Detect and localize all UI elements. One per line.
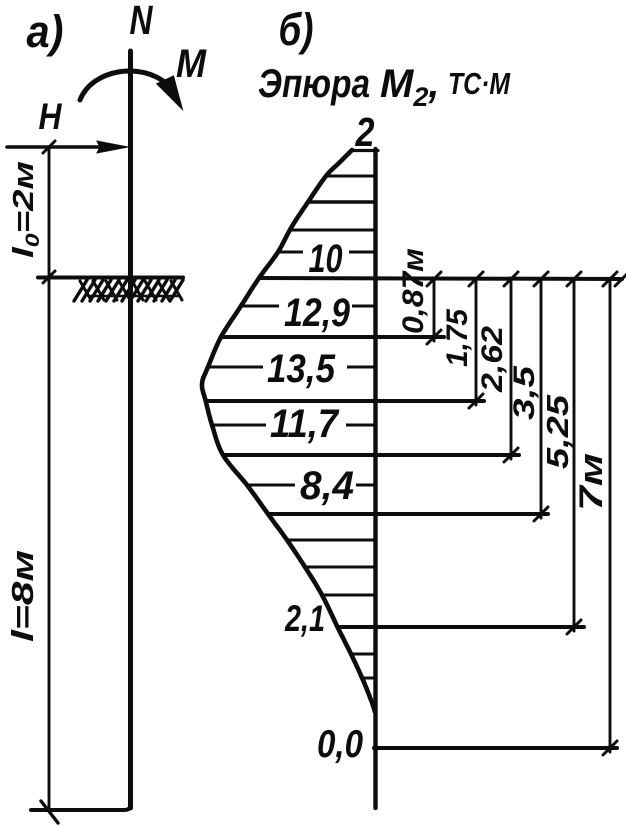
svg-text:б): б): [279, 4, 314, 55]
dimension line 0.87m: [433, 279, 436, 341]
epure top edge: [352, 149, 378, 152]
svg-text:8,4: 8,4: [300, 464, 354, 508]
svg-text:М2,: М2,: [380, 62, 439, 112]
3.5m level line: [268, 512, 548, 516]
diagram axis: [373, 149, 377, 808]
ground line left: [38, 276, 183, 280]
svg-text:2,1: 2,1: [284, 598, 325, 639]
svg-text:13,5: 13,5: [267, 347, 336, 391]
dimension line 3.5m: [540, 279, 543, 518]
ground datum line: [259, 278, 622, 279]
svg-text:Эпюра: Эпюра: [258, 62, 370, 106]
zero level line 7m: [374, 746, 617, 750]
5.25m level line: [338, 625, 585, 629]
tick at pile bottom: [41, 801, 58, 823]
svg-text:ТС·М: ТС·М: [448, 66, 511, 101]
dimension line 7m: [609, 279, 612, 752]
svg-text:5,25: 5,25: [540, 394, 575, 469]
dimension line left: [48, 147, 51, 810]
svg-text:3,5: 3,5: [508, 364, 541, 420]
svg-text:M: M: [176, 42, 208, 86]
svg-text:2: 2: [355, 109, 375, 155]
svg-text:0,0: 0,0: [317, 723, 363, 766]
svg-text:а): а): [27, 6, 64, 57]
svg-text:N: N: [130, 0, 154, 43]
svg-text:7м: 7м: [573, 453, 609, 511]
dimension line 2.62m: [510, 279, 513, 459]
datum end tick: [615, 272, 626, 286]
1.75m level line: [206, 399, 484, 403]
pile column: [128, 51, 133, 808]
svg-text:0,87м: 0,87м: [397, 248, 430, 334]
0.87m level line: [221, 335, 444, 339]
svg-text:2,62: 2,62: [476, 326, 509, 393]
moment arc M: [80, 71, 168, 100]
svg-text:11,7: 11,7: [270, 402, 340, 446]
pile bottom line: [31, 806, 130, 810]
epure envelope curve: [202, 150, 375, 712]
tick at ground level: [43, 271, 55, 283]
svg-text:10: 10: [309, 237, 343, 281]
dimension line 5.25m: [573, 279, 576, 631]
svg-text:1,75: 1,75: [441, 308, 474, 367]
label gaps: [303, 235, 349, 269]
svg-text:12,9: 12,9: [284, 291, 351, 335]
epure hatch lines: [208, 176, 376, 678]
ground hatching: [74, 280, 183, 301]
dimension line 1.75m: [475, 279, 478, 405]
svg-text:l=8м: l=8м: [5, 550, 40, 642]
svg-text:H: H: [39, 96, 63, 137]
tick at H level: [43, 141, 55, 153]
force H arrow: [7, 145, 104, 149]
2.62m level line: [223, 453, 519, 457]
